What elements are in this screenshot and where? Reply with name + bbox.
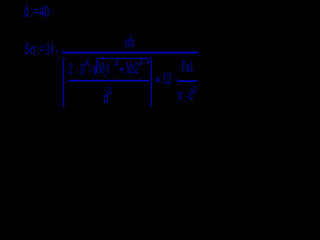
multiply dot between pi and d	[186, 96, 188, 98]
multiply dot after 0.4	[56, 51, 57, 53]
multiply dot after 10^4	[90, 71, 92, 73]
svg-text:12: 12	[162, 70, 171, 87]
svg-text:Fa1: Fa1	[181, 58, 194, 75]
left paren of denominator	[62, 58, 65, 107]
svg-text::=: :=	[38, 40, 44, 58]
multiply dot before Fa1 fraction	[176, 79, 178, 81]
plus operator before 12	[155, 76, 160, 82]
svg-text:0.4: 0.4	[46, 41, 54, 58]
svg-text:10: 10	[79, 61, 85, 78]
small fraction bar	[178, 80, 197, 82]
radical sign of sqrt	[93, 58, 148, 75]
svg-text:π: π	[178, 85, 183, 103]
svg-text:My1: My1	[98, 59, 110, 77]
svg-text:2: 2	[68, 60, 72, 77]
svg-text:2: 2	[193, 84, 197, 96]
svg-text:4: 4	[85, 56, 89, 68]
svg-text:d: d	[24, 3, 29, 20]
right paren of denominator	[149, 58, 152, 107]
plus operator inside sqrt	[120, 66, 125, 73]
svg-text:Mz2: Mz2	[126, 59, 138, 77]
svg-text:3: 3	[107, 85, 111, 98]
svg-text:40: 40	[39, 2, 49, 20]
big fraction bar	[62, 52, 198, 54]
svg-text:σb: σb	[125, 34, 135, 51]
multiply dot after 2	[76, 70, 78, 72]
svg-text:Sσ: Sσ	[25, 40, 36, 58]
small tick artifact at left end of big bar	[60, 49, 63, 52]
svg-text::=: :=	[31, 3, 39, 20]
inner fraction bar	[69, 80, 150, 82]
